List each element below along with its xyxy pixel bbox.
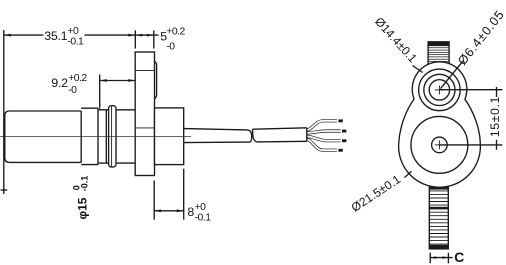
ring inner edge xyxy=(111,106,113,166)
dim C line with arrows xyxy=(430,257,452,259)
hole circle phi6.4 xyxy=(429,80,449,100)
svg-text:-0.1: -0.1 xyxy=(195,212,212,223)
dim 35.1 left arrow xyxy=(4,34,11,37)
dim 9.2 left arrow xyxy=(100,79,107,82)
wire 4 (bottom lead) ferrule tip xyxy=(338,149,342,152)
dim 35.1 extension line (left, also phi15 dim line) xyxy=(3,30,5,194)
boss circle phi14.4 xyxy=(424,74,455,105)
svg-text:+0.2: +0.2 xyxy=(68,73,87,84)
flange tangent edge line (upper) xyxy=(135,69,154,71)
wire 1 (top lead) outline xyxy=(307,121,337,130)
svg-text:9.2: 9.2 xyxy=(51,76,68,90)
threaded stud (top, hatched) xyxy=(428,42,449,70)
svg-text:-0: -0 xyxy=(166,41,175,52)
dim C ticks xyxy=(429,253,431,264)
dim 5 extension tick (flange right) xyxy=(153,30,155,48)
flange tangent edge line (lower) xyxy=(135,127,154,129)
dim 9.2 extension line xyxy=(99,75,101,109)
dim 15 extension line from top center xyxy=(439,89,502,91)
O-ring / retaining ring (rounded) xyxy=(109,106,116,167)
svg-text:-0.1: -0.1 xyxy=(79,176,89,192)
dim line 8 xyxy=(154,210,184,212)
wire 4 (bottom lead) outline xyxy=(307,139,337,150)
teardrop flange outline (front view) xyxy=(399,62,481,187)
cable segment 2 (break to jacket end) xyxy=(253,128,307,129)
svg-text:C: C xyxy=(454,250,464,265)
centerline of probe body xyxy=(0,135,191,137)
svg-text:8: 8 xyxy=(187,205,194,219)
boss bump on flange right side xyxy=(155,61,157,99)
body section A (behind cylinder) xyxy=(81,108,98,164)
dim line 9.2 xyxy=(100,80,136,82)
svg-text:15±0.1: 15±0.1 xyxy=(488,96,502,137)
leader for phi14.4 xyxy=(413,66,423,73)
dim 15 extension line from bottom center xyxy=(439,144,502,146)
wire 2 lead ferrule tip xyxy=(342,130,346,133)
dim 5 right arrow (outside) xyxy=(147,34,154,37)
cable break curve 2 xyxy=(253,129,257,142)
wire 3 lead ferrule tip xyxy=(342,139,346,142)
dim 35.1 right arrow xyxy=(128,34,135,37)
boss outer circle xyxy=(419,69,461,111)
dim 5 left arrow (outside) xyxy=(135,34,142,37)
leader for phi6.4 xyxy=(441,61,464,89)
cable segment 1 (hub to break) xyxy=(184,129,248,130)
ribbed cable exit (bottom, hatched) xyxy=(429,184,448,249)
svg-text:+0: +0 xyxy=(67,26,79,37)
cylinder end edge xyxy=(80,111,82,162)
svg-text:-0.1: -0.1 xyxy=(67,37,84,48)
bottom center cross xyxy=(435,144,444,146)
dim 8 right arrow xyxy=(177,209,184,212)
dim 8 left arrow xyxy=(154,209,161,212)
dim 15 bottom tick xyxy=(496,140,498,150)
top hole center cross xyxy=(435,89,444,91)
phi15 dim end tick xyxy=(1,189,8,191)
svg-text:φ15: φ15 xyxy=(75,197,89,219)
dim 5 extension tick (flange left) xyxy=(134,30,136,48)
mounting flange (side view) xyxy=(135,52,154,176)
sensor body main cylinder (phi15) xyxy=(5,111,81,162)
dim line 35.1 / 5 (horizontal) xyxy=(4,34,44,36)
body section C (ring to flange) xyxy=(116,109,135,111)
wire 2 lead outline xyxy=(307,131,341,133)
dim 8 extension line right (from hub) xyxy=(183,169,185,220)
dim C right arrow xyxy=(442,256,448,259)
dim 9.2 right arrow xyxy=(128,79,135,82)
rear hub (8mm section) xyxy=(155,108,184,165)
cable break curve 1 xyxy=(247,130,251,142)
sensor body circle phi21.5 xyxy=(411,116,468,173)
dim C left arrow xyxy=(430,256,436,259)
sensor face inner circle xyxy=(432,137,448,153)
cable jacket end edge xyxy=(306,128,308,142)
body section B with groove line xyxy=(98,109,109,111)
leader for phi21.5 xyxy=(405,171,412,177)
dim 15 top tick xyxy=(496,87,498,97)
wire 3 lead outline xyxy=(307,136,341,140)
dim 8 extension line left (from flange) xyxy=(153,181,155,220)
svg-text:-0: -0 xyxy=(68,85,77,96)
svg-text:35.1: 35.1 xyxy=(44,29,67,43)
svg-text:+0.2: +0.2 xyxy=(166,26,185,37)
wire 1 (top lead) ferrule tip xyxy=(338,119,342,122)
